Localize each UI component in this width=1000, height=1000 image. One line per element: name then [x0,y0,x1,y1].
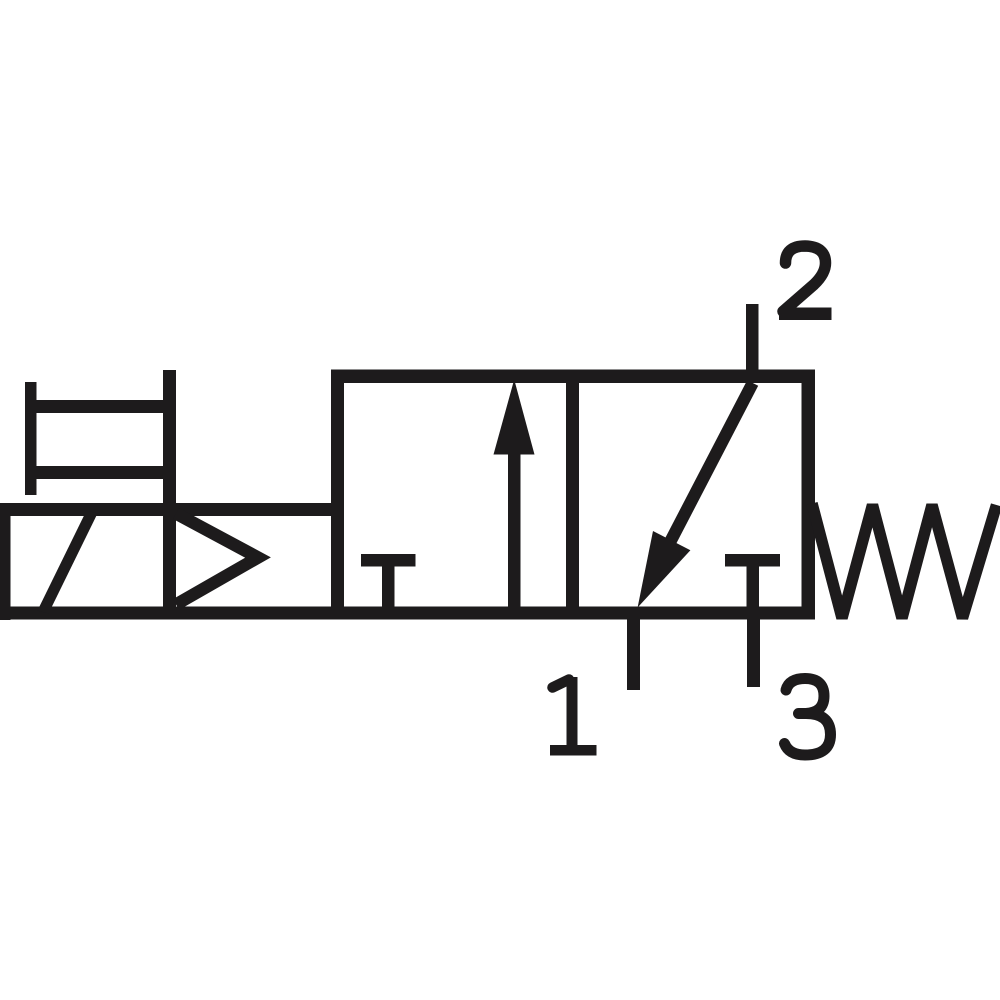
blocked port T in square 1: stem [382,560,395,613]
solenoid frame right vertical (continues down as box divider) [163,370,176,620]
port label 3 [785,679,831,756]
flow arrow (up) shaft in square 1 [508,442,521,613]
divider between squares [566,370,579,620]
solenoid box left edge [0,503,11,620]
blocked port T in square 2: bar [725,554,780,567]
port 3 stub [747,613,760,687]
valve square 1 left vertical [331,370,344,620]
valve square 2 right vertical [802,370,816,620]
flow arrow (up) head [494,380,535,455]
solenoid arrowhead triangle [176,514,258,605]
squares top line [331,370,815,384]
port 1 stub [627,613,640,690]
solenoid slash [38,511,98,614]
port 2 stub [746,304,759,378]
port label 2 [779,246,832,320]
spring (return) zigzag [812,504,997,619]
solenoid frame bottom rung [25,466,176,479]
main bottom line [0,607,815,620]
flow arrow (diagonal) head [638,531,691,608]
blocked port T in square 2: stem [747,560,760,613]
solenoid frame left vertical [25,382,37,495]
solenoid box top line [0,503,344,516]
port label 1 [550,677,597,756]
flow arrow (diagonal) shaft in square 2 [651,380,758,571]
solenoid frame top rung [25,400,176,413]
blocked port T in square 1: bar [361,554,416,567]
